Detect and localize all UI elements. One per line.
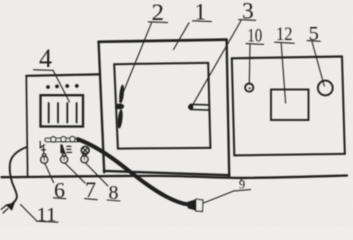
label 4 leader [53,70,70,102]
cabinet top edge [26,74,99,75]
oven bottom edge [104,171,229,175]
thermometer port (item 3) tube [191,103,210,106]
heater symbol (middle) [60,144,65,153]
switch symbol (left) [40,142,45,153]
lamp symbol (right) [81,146,89,154]
label 5 leader [312,42,324,86]
label 9 tick [240,178,242,181]
mains cord (item 11) [10,147,27,203]
bench line [2,176,348,178]
label 11 underline [37,221,59,222]
label 12 leader [281,44,285,103]
label 8 underline [107,200,120,201]
label 1 underline [193,20,212,23]
leader to label 11 [21,205,37,221]
leader to label 6 [45,163,54,182]
label 5 underline [307,40,320,43]
mains plug [5,202,15,211]
terminal bolt 3 [70,137,75,142]
knob 1 [42,154,46,158]
paper grain [0,0,1,1]
oven left edge [99,42,105,173]
terminal bolt 2 [61,137,66,142]
leader to label 7 [65,163,85,183]
label 9 underline [234,190,251,191]
chamber left edge [114,64,118,148]
control panel (right) top edge [232,57,342,59]
label 4 underline [34,69,54,72]
label 12 underline [275,42,295,43]
label 3 underline [239,19,256,22]
label 10 leader [248,45,251,84]
label 2 leader [120,23,152,102]
knob 2 [62,153,66,157]
fan upper blade [118,84,124,103]
control panel bottom edge [234,154,345,156]
control panel left edge [232,58,235,155]
tube cap [188,104,193,109]
terminal strip bar [45,138,81,142]
panel dots row [46,84,79,89]
cable plug body [187,199,197,211]
indicator (item 10) [245,84,253,92]
leader to label 8 [85,163,108,186]
terminal bolt 1 [51,137,56,142]
label 2 underline [148,21,167,24]
label 7 underline [85,199,97,200]
window (item 12) [271,90,309,121]
fan lower blade [117,109,124,129]
chamber bottom edge [118,147,210,150]
oven chamber inner top [114,63,208,64]
control panel right edge [342,57,345,154]
cable plug face [196,199,203,211]
grille bars [48,103,50,123]
label 10 underline [246,43,264,46]
oven right edge [227,40,230,176]
power cable (item 9) [78,139,188,204]
label 6 underline [54,197,66,200]
knob 3 [83,153,87,157]
grille (item 4) outer frame [41,95,84,126]
chamber right edge [208,63,210,148]
label 9 leader [204,191,235,203]
regulator knob (item 5) [318,81,333,96]
cabinet (left box) left edge [26,76,27,176]
label 1 leader [174,23,190,50]
oven (item 1) outer box top [99,40,227,42]
fan (item 2) hub [115,104,124,110]
label 3 leader [193,21,242,106]
